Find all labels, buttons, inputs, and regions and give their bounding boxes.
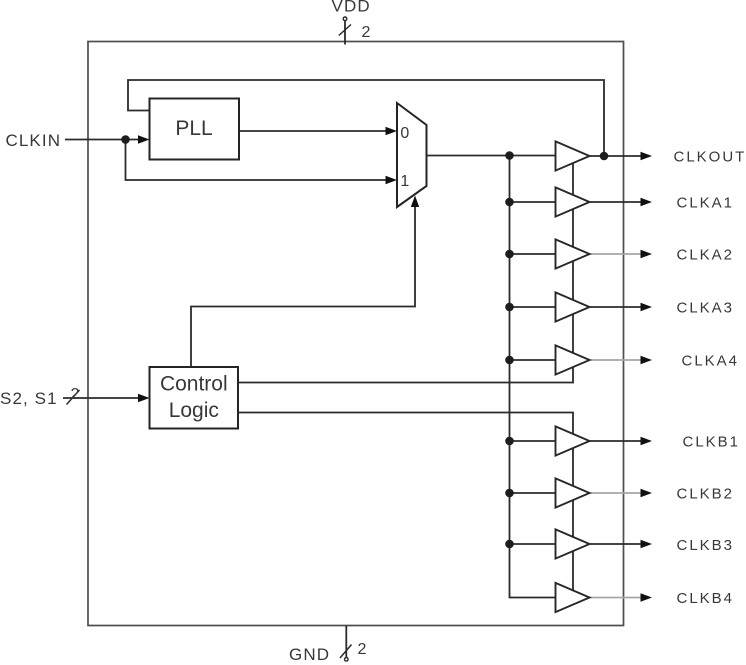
svg-text:CLKOUT: CLKOUT (674, 149, 746, 166)
svg-text:S2, S1: S2, S1 (0, 389, 58, 408)
svg-text:Logic: Logic (169, 399, 219, 422)
svg-text:2: 2 (71, 386, 80, 403)
svg-text:CLKA3: CLKA3 (677, 300, 735, 317)
svg-text:2: 2 (358, 641, 367, 658)
svg-text:CLKB3: CLKB3 (677, 537, 735, 554)
svg-text:VDD: VDD (332, 0, 371, 16)
svg-text:GND: GND (289, 645, 330, 664)
svg-text:CLKA1: CLKA1 (677, 195, 735, 212)
svg-text:0: 0 (400, 125, 409, 142)
svg-text:PLL: PLL (175, 117, 212, 140)
svg-text:1: 1 (400, 173, 409, 190)
svg-text:Control: Control (160, 373, 228, 396)
svg-text:CLKIN: CLKIN (6, 131, 62, 150)
svg-text:CLKB2: CLKB2 (677, 486, 735, 503)
svg-text:2: 2 (362, 24, 371, 41)
svg-text:CLKB1: CLKB1 (683, 434, 741, 451)
svg-text:CLKB4: CLKB4 (677, 590, 735, 607)
svg-text:CLKA2: CLKA2 (677, 247, 735, 264)
svg-text:CLKA4: CLKA4 (682, 353, 740, 370)
